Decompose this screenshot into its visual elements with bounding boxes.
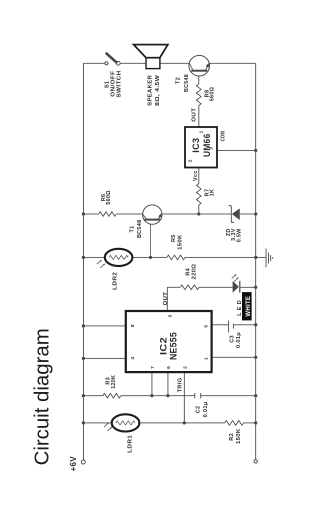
svg-text:OUT: OUT bbox=[163, 291, 169, 305]
svg-text:R5: R5 bbox=[171, 234, 177, 242]
svg-text:0.5W: 0.5W bbox=[236, 228, 242, 243]
svg-text:150K: 150K bbox=[236, 429, 242, 445]
svg-text:R2: R2 bbox=[229, 433, 235, 441]
svg-text:SPEAKER: SPEAKER bbox=[148, 75, 154, 106]
svg-text:NE555: NE555 bbox=[169, 332, 180, 360]
svg-text:+6V: +6V bbox=[69, 456, 78, 472]
svg-text:2: 2 bbox=[183, 366, 189, 369]
svg-text:C3: C3 bbox=[230, 335, 236, 343]
svg-text:LDR1: LDR1 bbox=[128, 435, 134, 453]
svg-text:0.01μ: 0.01μ bbox=[236, 332, 242, 348]
svg-text:5: 5 bbox=[204, 325, 210, 328]
svg-text:7: 7 bbox=[150, 366, 156, 369]
svg-text:8Ω, 4.5W: 8Ω, 4.5W bbox=[155, 74, 161, 106]
svg-text:3: 3 bbox=[167, 314, 173, 317]
svg-text:1: 1 bbox=[204, 357, 210, 360]
svg-text:TRIG: TRIG bbox=[177, 377, 183, 392]
svg-text:UM66: UM66 bbox=[202, 133, 212, 157]
svg-text:560Ω: 560Ω bbox=[106, 190, 112, 205]
svg-text:ON/OFF: ON/OFF bbox=[111, 70, 117, 96]
svg-text:560Ω: 560Ω bbox=[210, 86, 216, 101]
svg-text:R4: R4 bbox=[185, 267, 191, 275]
svg-text:120K: 120K bbox=[111, 375, 117, 389]
svg-text:8: 8 bbox=[130, 324, 136, 327]
svg-text:BC548: BC548 bbox=[184, 74, 190, 92]
svg-text:BC548: BC548 bbox=[137, 220, 143, 239]
svg-text:Circuit diagram: Circuit diagram bbox=[32, 328, 54, 465]
svg-text:Vcc: Vcc bbox=[193, 170, 199, 181]
svg-text:0.01μ: 0.01μ bbox=[203, 401, 209, 417]
svg-text:220Ω: 220Ω bbox=[192, 264, 198, 280]
svg-text:1K: 1K bbox=[209, 189, 215, 197]
svg-text:3: 3 bbox=[209, 147, 215, 150]
svg-text:6: 6 bbox=[166, 366, 172, 369]
svg-text:4: 4 bbox=[130, 357, 136, 360]
svg-text:WHITE: WHITE bbox=[246, 296, 252, 317]
svg-text:T1: T1 bbox=[130, 225, 136, 232]
svg-text:2: 2 bbox=[187, 159, 193, 162]
svg-text:OUT: OUT bbox=[192, 107, 198, 121]
svg-text:150K: 150K bbox=[178, 234, 184, 250]
svg-text:IC3: IC3 bbox=[191, 138, 201, 153]
svg-text:C2: C2 bbox=[195, 406, 201, 414]
svg-text:1: 1 bbox=[198, 130, 204, 133]
svg-text:LDR2: LDR2 bbox=[113, 272, 119, 290]
svg-text:T2: T2 bbox=[175, 77, 181, 84]
svg-text:SWITCH: SWITCH bbox=[117, 71, 123, 98]
svg-text:COM: COM bbox=[221, 131, 227, 142]
